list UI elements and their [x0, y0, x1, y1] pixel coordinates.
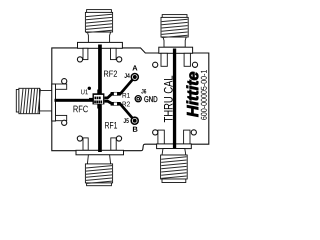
thread hatch J2 [162, 19, 188, 37]
label 600-00005-00-1 (rotated) [201, 70, 207, 120]
wire R2 to test point B [120, 104, 135, 121]
wire RF1 trace [98, 105, 102, 153]
resistor R2 [111, 102, 121, 106]
via J6 GND [135, 96, 141, 102]
thread hatch J1 [86, 14, 112, 32]
label J6 [141, 89, 146, 94]
test point B (J5) [130, 116, 139, 125]
connector J3 bottom-left (RF1) [76, 138, 124, 186]
pin holes J8 [62, 79, 67, 84]
thread hatch J8 [21, 89, 41, 114]
label A [132, 65, 137, 70]
wire IC to R1 [105, 94, 112, 98]
logo Hittite (rotated) [187, 72, 199, 117]
wire IC to R2 [105, 101, 112, 103]
thread hatch J3 [86, 166, 112, 184]
pin holes J2 [153, 62, 158, 67]
label GND [144, 96, 157, 102]
pin-1 dot U1 [88, 87, 91, 90]
wire RF2 trace [98, 45, 102, 95]
connector J7 bottom-right (THRU CAL bottom) [157, 130, 192, 182]
board outline [52, 48, 209, 151]
wire RFC trace [55, 99, 94, 102]
test point A (J4) [131, 73, 140, 82]
connector J1 top-left (RF2) [78, 10, 123, 60]
op-amp U1 (switch IC) [89, 90, 104, 109]
label U1 [81, 89, 88, 94]
pin holes J3 [77, 136, 82, 141]
label J4 [124, 73, 129, 78]
resistor R1 [111, 92, 121, 96]
label R1 [123, 93, 130, 98]
label RF1 [105, 122, 117, 129]
label RFC [74, 106, 88, 113]
label THRU CAL (rotated) [164, 76, 173, 122]
connector J8 left (RFC) [16, 84, 66, 121]
label R2 [123, 102, 130, 107]
wire R1 to test point A [120, 77, 135, 94]
label J5 [123, 118, 128, 123]
connector J2 top-right (THRU CAL top) [159, 15, 193, 67]
thread hatch J7 [161, 157, 186, 179]
label B [133, 127, 138, 132]
label RF2 [104, 71, 117, 77]
pin holes J1 [77, 57, 82, 62]
wire THRU CAL trace [173, 49, 176, 149]
pin holes J7 [153, 130, 158, 135]
